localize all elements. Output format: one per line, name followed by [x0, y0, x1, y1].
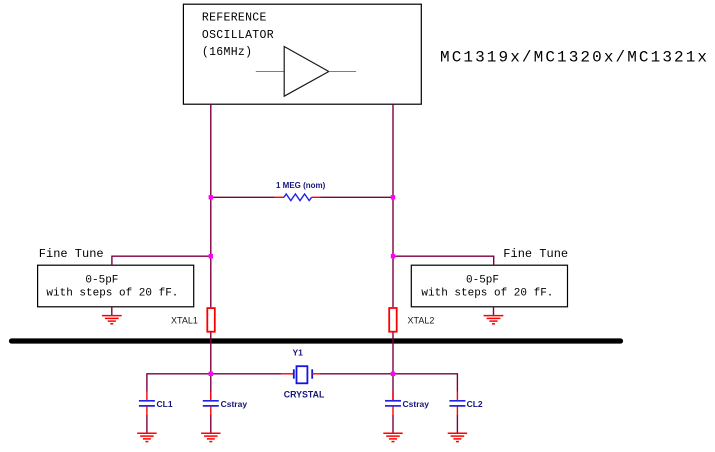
capacitor CL1 [139, 392, 155, 416]
op-amp buffer A1 [284, 47, 329, 97]
svg-text:OSCILLATOR: OSCILLATOR [202, 29, 274, 42]
ground Cstray right [383, 433, 402, 441]
title label MC1319x/MC1320x/MC1321x [440, 49, 709, 67]
wire fine tune right to XTAL2 node [393, 256, 494, 265]
op-amp buffer A1 input wire [256, 71, 284, 73]
label Fine Tune left [39, 247, 104, 261]
resistor R1 value label 1 MEG (nom) [276, 181, 326, 190]
wire XTAL1 pin to bottom bus [210, 333, 212, 374]
svg-text:CL1: CL1 [157, 399, 173, 409]
svg-text:CRYSTAL: CRYSTAL [284, 390, 325, 400]
crystal Y1 lead left [281, 373, 294, 375]
wire Cstray right to ground [392, 415, 394, 433]
capacitor Cstray right [385, 376, 401, 415]
svg-text:with steps of 20 fF.: with steps of 20 fF. [421, 287, 553, 299]
svg-text:Y1: Y1 [293, 348, 304, 358]
capacitor Cstray left [203, 376, 219, 415]
wire fine tune left to XTAL1 node [112, 256, 211, 265]
label CRYSTAL [284, 390, 325, 400]
label Y1 [293, 348, 304, 358]
svg-text:with steps of 20 fF.: with steps of 20 fF. [46, 287, 178, 299]
pin XTAL1 [207, 308, 215, 332]
fine tune box right [411, 265, 567, 307]
svg-text:REFERENCE: REFERENCE [202, 12, 267, 25]
wire XTAL1 vertical from oscillator to XTAL1 pin [210, 104, 212, 307]
svg-text:1 MEG (nom): 1 MEG (nom) [276, 181, 326, 190]
svg-text:Cstray: Cstray [221, 399, 248, 409]
op-amp buffer A1 output wire [329, 71, 356, 73]
resistor R1 1 MEG body [284, 194, 312, 201]
label Cstray right [403, 399, 430, 409]
wire resistor row left [211, 196, 275, 198]
wire resistor row right [321, 196, 394, 198]
svg-text:0-5pF: 0-5pF [85, 274, 118, 286]
ground Cstray left [201, 433, 220, 441]
fine tune box left [38, 265, 194, 307]
svg-text:XTAL1: XTAL1 [171, 315, 198, 325]
label CL1 [157, 399, 173, 409]
capacitor CL2 [449, 392, 465, 416]
crystal Y1 lead right [312, 373, 319, 375]
wire bottom bus right segment [319, 374, 457, 392]
node junction bus Cstray left [209, 372, 213, 376]
label CL2 [467, 399, 483, 409]
svg-text:Fine Tune: Fine Tune [39, 247, 104, 261]
node junction fine tune right [391, 254, 395, 258]
crystal Y1 [294, 366, 312, 383]
wire bottom bus left segment [147, 374, 281, 392]
svg-text:XTAL2: XTAL2 [408, 315, 435, 325]
wire CL1 to ground [146, 415, 148, 433]
svg-text:CL2: CL2 [467, 399, 483, 409]
node junction fine tune left [209, 254, 213, 258]
resistor R1 1 MEG lead left [275, 196, 285, 198]
resistor R1 1 MEG lead right [312, 196, 321, 198]
ground below fine tune box right [484, 307, 504, 324]
wire XTAL2 vertical from oscillator to XTAL2 pin [392, 104, 394, 307]
svg-text:MC1319x/MC1320x/MC1321x: MC1319x/MC1320x/MC1321x [440, 49, 709, 67]
reference oscillator box U1 [183, 4, 421, 104]
label XTAL2 [408, 315, 435, 325]
node junction bus Cstray right [391, 372, 395, 376]
wire Cstray left to ground [210, 415, 212, 433]
svg-text:Fine Tune: Fine Tune [503, 247, 568, 261]
node junction right of resistor [391, 195, 395, 199]
pin XTAL2 [389, 308, 397, 332]
label Fine Tune right [503, 247, 568, 261]
label Cstray left [221, 399, 248, 409]
label XTAL1 [171, 315, 198, 325]
ground below fine tune box left [102, 307, 122, 324]
chip boundary thick line [12, 338, 621, 343]
wire CL2 to ground [456, 415, 458, 433]
svg-text:Cstray: Cstray [403, 399, 430, 409]
svg-text:0-5pF: 0-5pF [466, 274, 499, 286]
ground CL1 [137, 433, 156, 441]
svg-text:(16MHz): (16MHz) [202, 46, 252, 59]
ground CL2 [448, 433, 467, 441]
node junction left of resistor [209, 195, 213, 199]
wire XTAL2 pin to bottom bus [392, 333, 394, 374]
